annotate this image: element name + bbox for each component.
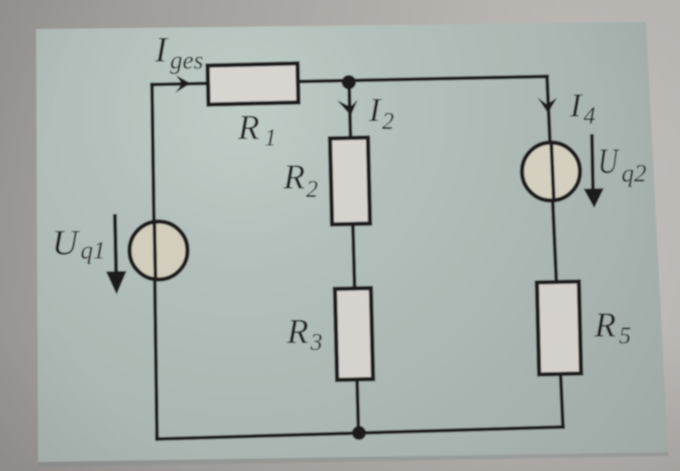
node: top junction bbox=[342, 75, 356, 89]
voltage source U_q2 (circle) bbox=[522, 143, 580, 201]
voltage source U_q1 (circle) bbox=[130, 222, 188, 280]
arrow I_4 on right wire bbox=[538, 98, 558, 114]
resistor R3 bbox=[335, 288, 373, 380]
arrow I_2 on middle wire bbox=[337, 100, 358, 116]
label U_q2 bbox=[598, 141, 647, 187]
label I_ges bbox=[154, 30, 203, 75]
wire: top horizontal (left corner to top-right corner) bbox=[152, 77, 547, 85]
wire: middle vertical branch bbox=[349, 81, 359, 434]
label I_4 bbox=[569, 88, 596, 130]
resistor R1 bbox=[208, 63, 299, 104]
arrow I_ges on top wire bbox=[175, 75, 191, 93]
panel bottom edge shadow bbox=[38, 452, 669, 467]
label R1 bbox=[237, 108, 277, 152]
paper bottom shading bbox=[0, 330, 680, 471]
resistor R5 bbox=[537, 281, 581, 374]
arrow U_q2 (beside source) bbox=[584, 134, 604, 208]
label U_q1 bbox=[52, 222, 106, 264]
node: bottom junction bbox=[352, 426, 366, 440]
label R2 bbox=[283, 158, 319, 203]
wire: through U_q1 bbox=[154, 220, 155, 281]
label R5 bbox=[594, 305, 632, 349]
label R3 bbox=[286, 312, 323, 356]
arrow U_q1 (beside source) bbox=[106, 214, 127, 295]
label I_2 bbox=[368, 92, 394, 135]
wire: through U_q2 bbox=[551, 141, 554, 202]
wire: right vertical branch bbox=[547, 77, 563, 428]
wire: left vertical branch bbox=[152, 85, 157, 440]
resistor R2 bbox=[330, 138, 370, 225]
wire: bottom horizontal bbox=[157, 427, 563, 439]
